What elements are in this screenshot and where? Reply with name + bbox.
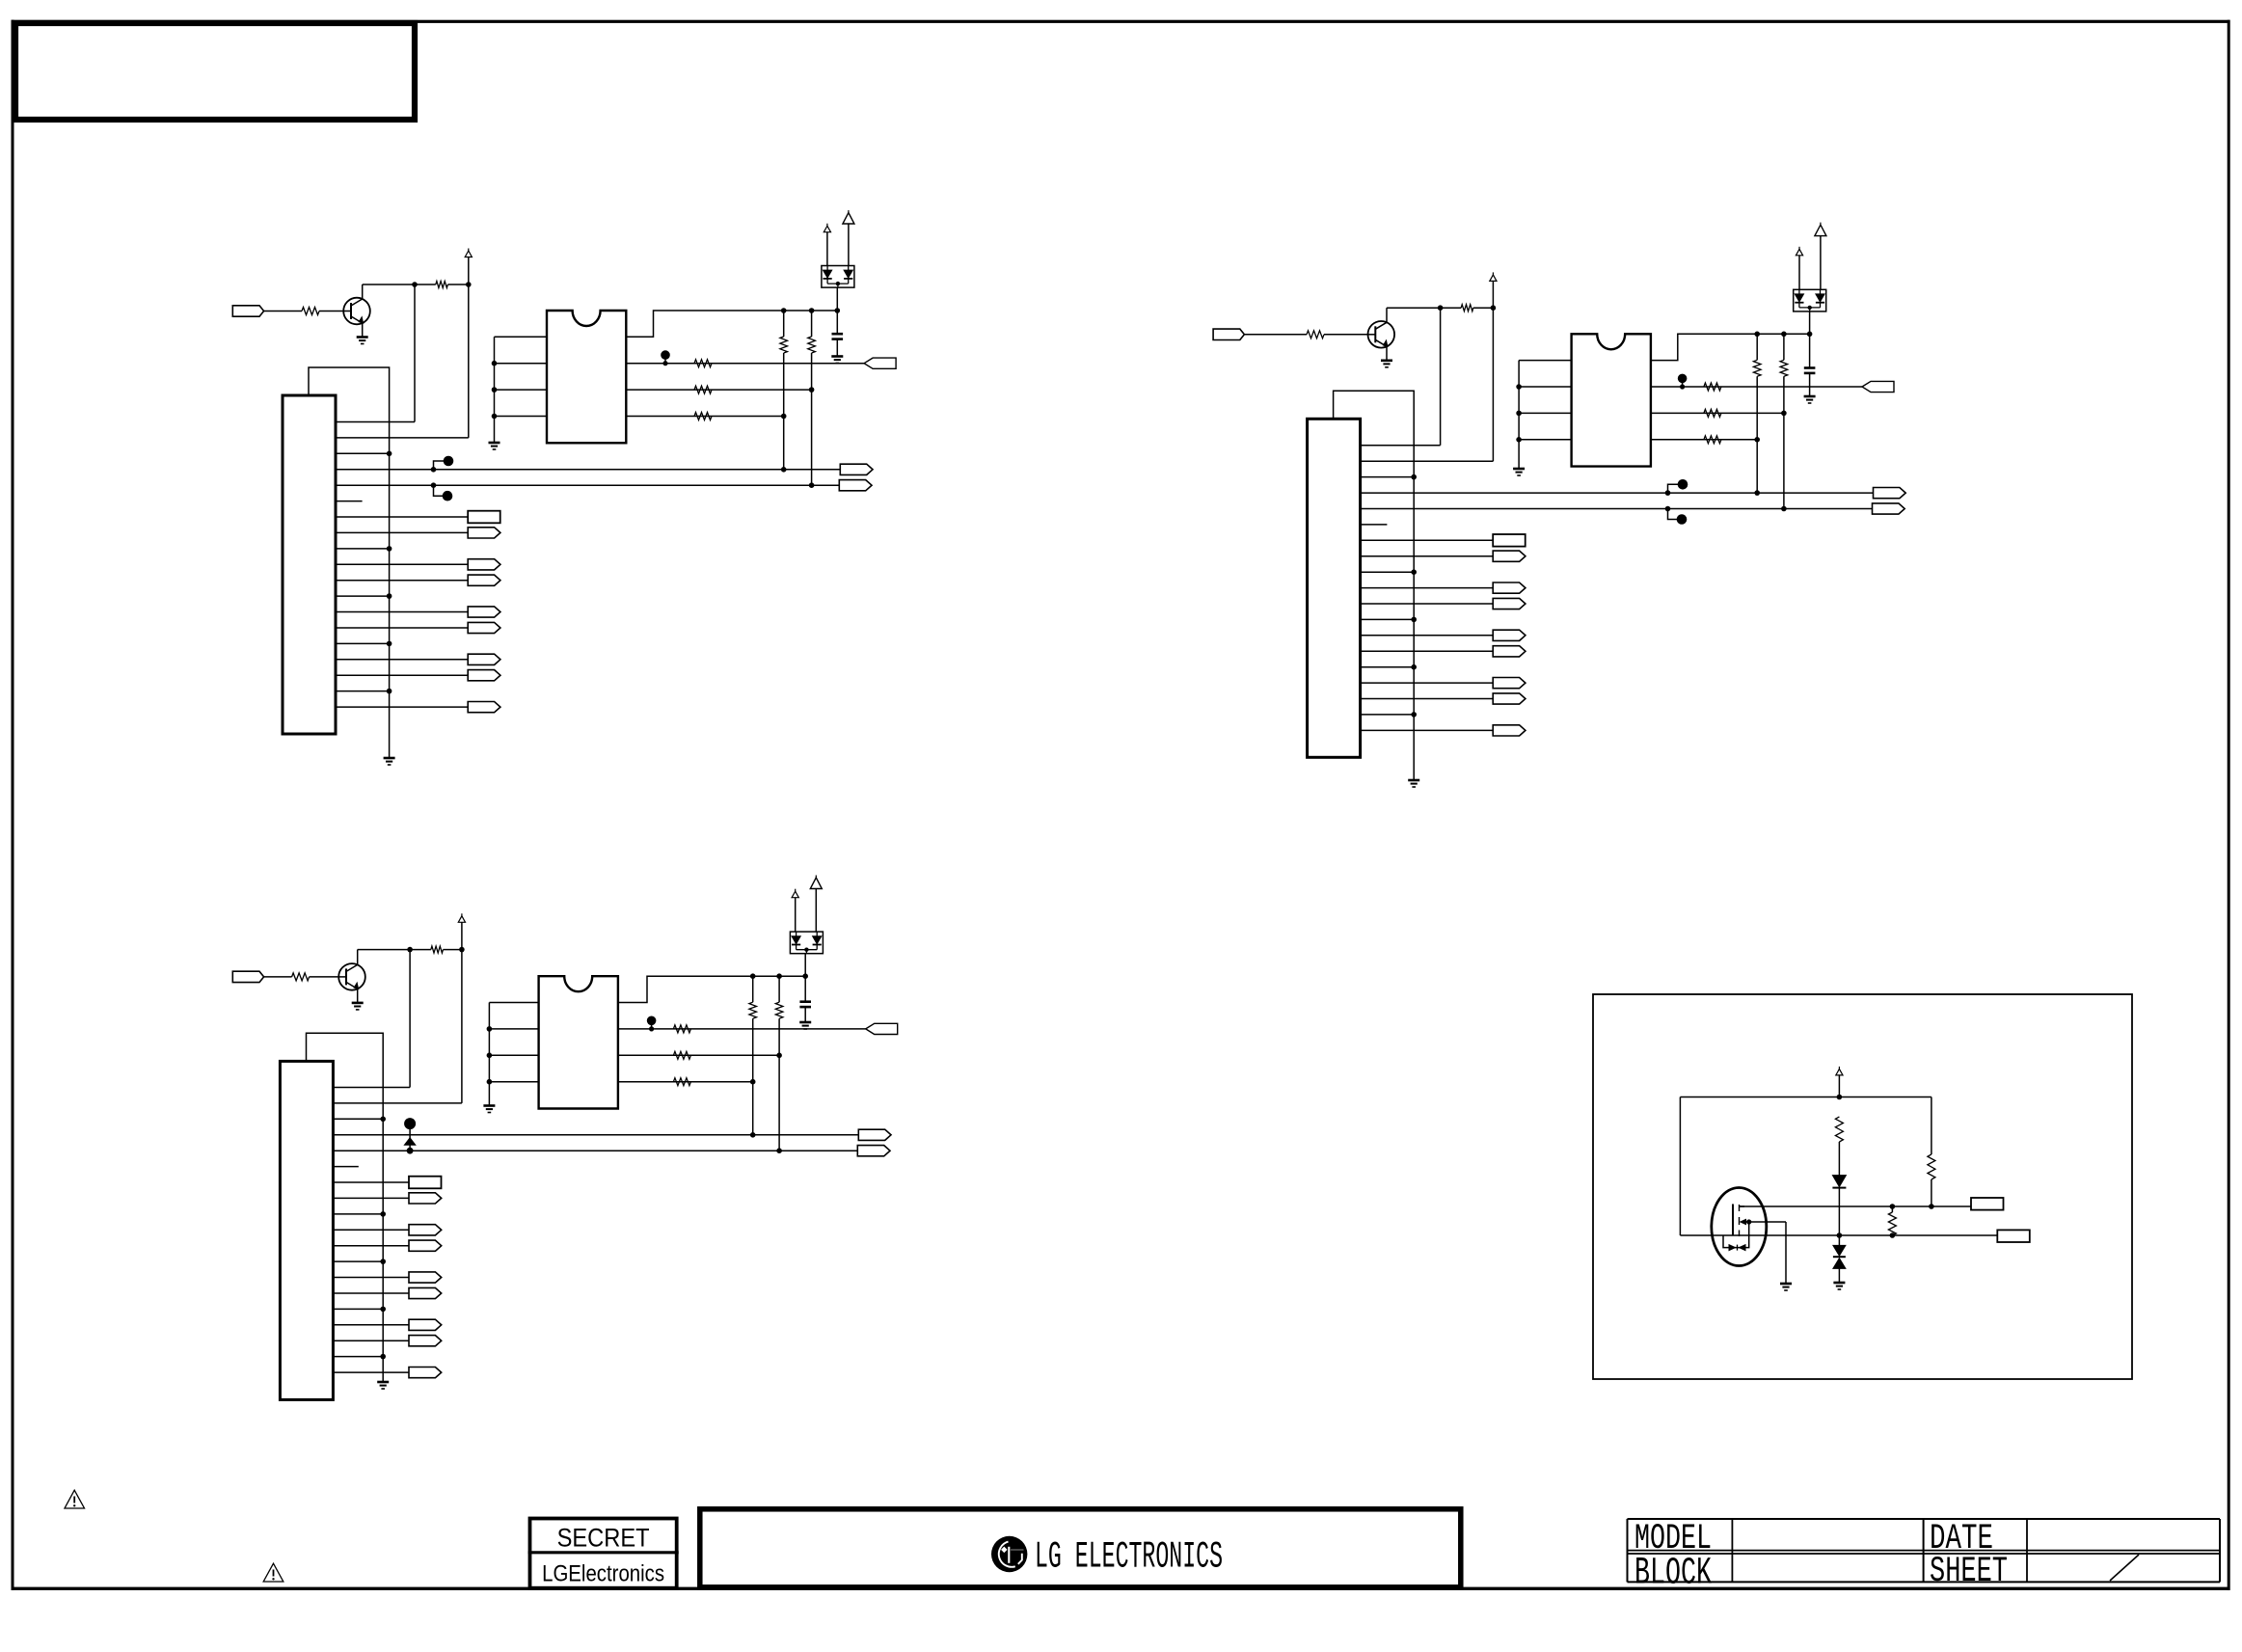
wire gate to ground (inset) <box>1785 1222 1787 1283</box>
wire to connector pin 2 <box>1361 460 1494 462</box>
wire U2 pin 7 net <box>1651 386 1862 388</box>
wire to connector pin 1 <box>1361 445 1441 447</box>
wire connector J2 pin 13 <box>1361 635 1494 636</box>
page border bottom <box>12 1587 2230 1590</box>
wire R41 to diode D41 <box>1838 1142 1840 1176</box>
input net tag block3 <box>232 971 263 982</box>
junction (VDD net / capacitor C3) <box>802 973 808 979</box>
junction (net B / R43) <box>1890 1232 1896 1238</box>
wire connector J2 pin 8 <box>1361 555 1494 557</box>
wire ground bus (block 1) <box>309 367 390 757</box>
wire collector node down to pin 1 <box>414 284 416 422</box>
wire net A drain (inset) <box>1740 1205 1931 1207</box>
wire D41 to net B (inset) <box>1838 1188 1840 1235</box>
junction (U1 left pin 2) <box>492 361 498 366</box>
wire connector J2 pin 7 <box>1361 539 1494 541</box>
transistor Q2 (NPN) <box>1367 321 1394 348</box>
net tag (pin 14, block 2) <box>1493 646 1526 657</box>
input net tag block2 <box>1213 329 1244 339</box>
resistor R13 (series) <box>694 360 712 367</box>
junction (pin 3 on bus) <box>1411 474 1417 480</box>
wire U2 pin 8 to VDD net <box>1651 334 1810 360</box>
junction (VCC node 2) <box>1491 305 1497 311</box>
wire to resistor R12 <box>415 284 436 285</box>
net tag (pin 7, block 1) <box>468 511 500 524</box>
wire connector J3 pin 15 to ground bus <box>333 1308 383 1310</box>
no-connect blob / diode marker (nets A-B block 3) <box>404 1118 416 1154</box>
power arrow (diode pack anode 1, block 3) <box>792 889 798 898</box>
junction (VDD net / vertical A block 2) <box>1754 332 1760 338</box>
wire U2 pin 3 (left) <box>1519 412 1572 414</box>
wire U1 pin 2 (left) <box>495 363 548 365</box>
wire vertical B lower (block 3) <box>778 1018 780 1151</box>
ground (U1 left bus) <box>489 443 500 449</box>
junction (top net / R41) <box>1837 1095 1843 1100</box>
junction (net B / vertical B block 3) <box>776 1148 782 1153</box>
junction (VDD net / capacitor C2) <box>1807 332 1813 338</box>
power arrow VCC (block 1) <box>465 249 472 257</box>
net tag A (block 3) <box>858 1129 891 1140</box>
warning triangle 2 <box>263 1563 284 1582</box>
wire net A (pin 4, block 2) <box>1361 492 1874 494</box>
wire vertical B lower (block 1) <box>811 353 813 485</box>
net tag B (inset) <box>1997 1230 2030 1242</box>
net tag (pin 8, block 3) <box>409 1193 442 1204</box>
diode pack D3 (dual diode) <box>790 932 823 954</box>
wire R43 upper stub <box>1891 1206 1893 1212</box>
wire resistor to VCC node <box>1473 307 1494 309</box>
net tag (U2 pin 7, points left) <box>1862 381 1894 392</box>
wire U2 pin 6 net <box>1651 412 1784 414</box>
wire connector J3 pin 3 to ground bus <box>333 1118 383 1120</box>
net tag (pin 16, block 3) <box>409 1319 442 1330</box>
wire net A (pin 4, block 1) <box>336 469 840 471</box>
wire diode pack to VDD net <box>804 954 806 977</box>
wire to connector pin 1 <box>333 1087 410 1089</box>
junction (pin 9 on bus) <box>387 546 392 552</box>
inset frame box <box>1593 994 2132 1379</box>
wire VCC arrow down <box>461 922 463 949</box>
net tag (pin 7, block 3) <box>409 1177 442 1189</box>
junction (VDD net / capacitor C1) <box>835 308 841 313</box>
wire connector J2 pin 18 to ground bus <box>1361 714 1415 716</box>
connector J3 <box>280 1061 333 1399</box>
connector J1 <box>283 395 336 734</box>
net tag (pin 11, block 2) <box>1493 598 1526 609</box>
net tag (pin 10, block 2) <box>1493 582 1526 593</box>
wire vertical B upper (block 1) <box>811 311 813 337</box>
net tag (pin 8, block 1) <box>468 528 500 538</box>
wire U3 pin 6 net <box>618 1054 779 1056</box>
wire ground bus (block 2) <box>1334 391 1415 779</box>
input net tag block1 <box>232 306 263 316</box>
IC U1 (8-pin) <box>547 311 626 443</box>
net tag (pin 14, block 1) <box>468 622 500 633</box>
junction (net B / vertical B block 1) <box>809 482 815 488</box>
resistor R24 (series) <box>1704 409 1721 417</box>
wire U1 pin 5 net <box>626 416 783 418</box>
wire Q3 emitter to ground <box>357 988 359 1002</box>
wire connector J1 pin 16 <box>336 659 468 661</box>
wire net A to tag <box>1931 1205 1971 1207</box>
junction (U3 left pin 3) <box>487 1053 493 1059</box>
ground (Q1 emitter) <box>357 338 368 344</box>
junction (pin 12 on bus) <box>1411 617 1417 623</box>
no-connect blob (net A block 2) <box>1665 479 1688 496</box>
wire connector J1 pin 17 <box>336 674 468 676</box>
junction (pin 12 on bus) <box>387 593 392 599</box>
junction (pin 3 on bus) <box>387 451 392 457</box>
wire connector J1 pin 7 <box>336 516 468 518</box>
junction (VCC node 3) <box>459 947 465 953</box>
resistor R32 (collector pull-up) <box>431 946 444 953</box>
wire U3 pin 2 (left) <box>489 1028 538 1030</box>
wire power to diode pack (1) <box>795 898 797 932</box>
junction (pin 9 on bus) <box>380 1211 386 1217</box>
wire U1 pin 4 (left) <box>495 416 548 418</box>
junction (VCC node 1) <box>466 282 472 287</box>
wire vertical B upper (block 2) <box>1783 334 1785 360</box>
wire vertical A lower (block 2) <box>1756 376 1758 493</box>
wire connector J2 pin 10 <box>1361 587 1494 589</box>
wire connector J3 pin 12 to ground bus <box>333 1260 383 1262</box>
page border top <box>12 20 2230 23</box>
power arrow (diode pack anode 2, block 3) <box>810 876 822 889</box>
wire U2 pin 4 (left) <box>1519 439 1572 441</box>
wire diode pack to VDD net <box>1809 311 1811 334</box>
wire connector J3 pin 17 <box>333 1340 409 1341</box>
wire Q3 collector up <box>357 950 359 965</box>
wire net A (pin 4, block 3) <box>333 1134 858 1136</box>
wire connector J3 pin 13 <box>333 1277 409 1279</box>
resistor R11 (base series) <box>302 308 319 315</box>
wire connector J3 pin 18 to ground bus <box>333 1356 383 1358</box>
wire U3 pin 7 net <box>618 1028 866 1030</box>
diode D41 (series, cathode down) <box>1832 1176 1846 1188</box>
power arrow (diode pack anode 2, block 2) <box>1815 223 1826 236</box>
wire resistor to VCC node <box>447 284 468 285</box>
wire U2 left ground bus <box>1518 361 1520 468</box>
junction (pin 15 on bus) <box>1411 664 1417 670</box>
junction (pin 15 on bus) <box>380 1307 386 1313</box>
ground (bus block 2) <box>1408 780 1419 787</box>
junction (U2 left pin 4) <box>1516 437 1522 443</box>
LG ELECTRONICS box <box>700 1509 1461 1587</box>
sheet slash <box>2110 1555 2139 1581</box>
wire connector J1 pin 13 <box>336 611 468 613</box>
wire net B source (inset) <box>1680 1234 1997 1236</box>
ground (U2 left bus) <box>1513 469 1525 475</box>
wire connector J3 pin 6 stub <box>333 1166 358 1168</box>
junction (net B / zener) <box>1837 1232 1843 1238</box>
wire U3 pin 4 (left) <box>489 1081 538 1083</box>
wire connector J1 pin 10 <box>336 563 468 565</box>
wire U1 pin 8 to VDD net <box>626 311 837 337</box>
net tag (pin 19, block 3) <box>409 1368 442 1378</box>
net tag (pin 13, block 2) <box>1493 630 1526 640</box>
capacitor C1 <box>832 334 844 339</box>
net tag B (block 1) <box>839 480 872 491</box>
wire diode pack to VDD net <box>836 287 838 311</box>
junction (pin 6 net / vertical B) <box>776 1053 782 1059</box>
junction (pin 3 on bus) <box>380 1117 386 1123</box>
junction (VDD net / vertical B block 1) <box>809 308 815 313</box>
warning triangle 1 <box>65 1490 85 1508</box>
net tag (pin 16, block 2) <box>1493 678 1526 689</box>
wire VCC arrow down (inset) <box>1838 1075 1840 1097</box>
wire connector J2 pin 11 <box>1361 603 1494 605</box>
wire U3 pin 5 net <box>618 1081 753 1083</box>
svg-text:LGElectronics: LGElectronics <box>542 1561 664 1587</box>
net tag (pin 13, block 1) <box>468 607 500 617</box>
transistor Q3 (NPN) <box>338 963 365 990</box>
svg-text:SHEET: SHEET <box>1930 1552 2008 1592</box>
junction (collector node 3) <box>407 947 413 953</box>
page border right <box>2228 20 2230 1590</box>
diode pack D2 (dual diode) <box>1794 289 1826 311</box>
wire connector J1 pin 12 to ground bus <box>336 595 390 597</box>
junction (pin 15 on bus) <box>387 641 392 647</box>
ground (Q3 emitter) <box>352 1003 364 1010</box>
wire VCC arrow down <box>468 257 470 285</box>
resistor R12 (collector pull-up) <box>436 282 448 288</box>
wire U1 left ground bus <box>494 337 496 442</box>
wire VCC node down to pin 2 <box>1492 308 1494 461</box>
wire input tag to resistor R31 <box>264 976 292 978</box>
wire net B (pin 5, block 3) <box>333 1150 857 1151</box>
no-connect blob (U3 pin 7 net) <box>647 1016 657 1032</box>
no-connect blob (net B block 2) <box>1665 506 1688 525</box>
junction (net A / R43) <box>1890 1204 1896 1209</box>
junction (VDD net / vertical B block 2) <box>1781 332 1787 338</box>
resistor R16 (pull-up A) <box>780 337 788 353</box>
junction (U1 left pin 3) <box>492 387 498 393</box>
junction (VDD net / vertical A block 1) <box>781 308 787 313</box>
net tag B (block 2) <box>1873 503 1905 514</box>
svg-text:BLOCK: BLOCK <box>1634 1553 1712 1596</box>
junction (pin 6 net / vertical B) <box>809 387 815 393</box>
net tag (pin 17, block 1) <box>468 670 500 681</box>
wire power to diode pack (1) <box>826 232 828 266</box>
junction (collector node 1) <box>412 282 418 287</box>
junction (net A / vertical A block 3) <box>750 1132 756 1138</box>
net tag (pin 17, block 3) <box>409 1336 442 1346</box>
power arrow VCC (inset) <box>1836 1067 1843 1075</box>
wire connector J2 pin 14 <box>1361 650 1494 652</box>
resistor R33 (series) <box>673 1025 690 1033</box>
wire to connector pin 2 <box>336 437 469 439</box>
resistor R31 (base series) <box>292 973 310 981</box>
net tag (pin 10, block 3) <box>409 1225 442 1235</box>
net tag (pin 11, block 3) <box>409 1240 442 1251</box>
wire vertical A upper (block 2) <box>1756 334 1758 360</box>
wire connector J1 pin 3 to ground bus <box>336 452 390 454</box>
IC U3 (8-pin) <box>539 976 618 1108</box>
junction (VDD net / vertical A block 3) <box>750 973 756 979</box>
wire collector net <box>363 284 415 285</box>
SECRET box <box>528 1519 679 1588</box>
wire VDD net to capacitor C1 <box>836 311 838 334</box>
power arrow (diode pack anode 2, block 1) <box>843 210 854 224</box>
resistor R27 (pull-up B) <box>1780 360 1788 376</box>
power arrow (diode pack anode 1, block 1) <box>824 224 830 232</box>
wire connector J3 pin 8 <box>333 1197 409 1199</box>
power arrow (diode pack anode 1, block 2) <box>1796 247 1802 256</box>
wire connector J2 pin 15 to ground bus <box>1361 666 1415 668</box>
wire vertical B lower (block 2) <box>1783 376 1785 508</box>
net tag (pin 10, block 1) <box>468 559 500 570</box>
wire connector J2 pin 17 <box>1361 698 1494 700</box>
net tag B (block 3) <box>857 1146 890 1156</box>
junction (pin 5 net / vertical A) <box>1754 437 1760 443</box>
resistor R22 (collector pull-up) <box>1461 305 1473 311</box>
junction (collector node 2) <box>1438 305 1444 311</box>
wire connector J1 pin 9 to ground bus <box>336 548 390 550</box>
wire VCC node down to pin 2 <box>468 284 470 438</box>
junction (U2 left pin 3) <box>1516 411 1522 417</box>
wire connector J2 pin 3 to ground bus <box>1361 476 1415 478</box>
wire connector J2 pin 9 to ground bus <box>1361 571 1415 573</box>
wire U3 pin 3 (left) <box>489 1054 538 1056</box>
wire connector J1 pin 6 stub <box>336 501 363 502</box>
title box (top-left, empty) <box>15 23 415 120</box>
resistor R26 (pull-up A) <box>1753 360 1761 376</box>
resistor R37 (pull-up B) <box>775 1002 783 1018</box>
wire power to diode pack (2) <box>815 889 817 933</box>
wire connector J1 pin 14 <box>336 627 468 629</box>
wire connector J3 pin 10 <box>333 1229 409 1231</box>
wire capacitor C2 to ground <box>1809 373 1811 395</box>
resistor R23 (series) <box>1704 383 1721 391</box>
svg-text:LG ELECTRONICS: LG ELECTRONICS <box>1035 1536 1223 1579</box>
ground (bus block 3) <box>377 1382 389 1389</box>
wire U3 pin 1 (left) <box>489 1002 538 1004</box>
LG logo <box>991 1536 1027 1572</box>
junction (net B / vertical B block 2) <box>1781 506 1787 512</box>
net tag (U1 pin 7, points left) <box>864 358 896 368</box>
junction (U1 left pin 4) <box>492 414 498 420</box>
ground (gate, inset) <box>1780 1284 1792 1290</box>
wire VCC node down to pin 2 <box>461 950 463 1103</box>
resistor R42 (right pull-up) <box>1928 1154 1935 1179</box>
resistor R34 (series) <box>673 1051 690 1059</box>
wire power to diode pack (2) <box>848 224 850 266</box>
wire Q2 collector up <box>1386 308 1388 322</box>
wire vertical A upper (block 1) <box>783 311 785 337</box>
wire to resistor R32 <box>410 949 431 951</box>
wire U2 pin 1 (left) <box>1519 360 1572 362</box>
junction (VDD net / vertical B block 3) <box>776 973 782 979</box>
power arrow VCC (block 3) <box>458 913 465 922</box>
wire input tag to resistor R21 <box>1244 334 1307 336</box>
wire to connector pin 2 <box>333 1102 462 1104</box>
wire to connector pin 1 <box>336 421 415 423</box>
wire right vertical lower (inset) <box>1931 1179 1932 1205</box>
net tag (pin 13, block 3) <box>409 1272 442 1283</box>
wire connector J3 pin 16 <box>333 1324 409 1326</box>
junction (U3 left pin 4) <box>487 1079 493 1085</box>
transistor Q1 (NPN) <box>343 298 370 325</box>
net tag (pin 19, block 2) <box>1493 725 1526 736</box>
junction (U3 left pin 2) <box>487 1026 493 1032</box>
resistor R43 (divider) <box>1888 1212 1896 1235</box>
wire resistor to Q1 base <box>319 311 343 312</box>
capacitor C3 <box>799 1002 811 1007</box>
resistor R15 (series) <box>694 413 712 420</box>
resistor R17 (pull-up B) <box>808 337 816 353</box>
wire U3 left ground bus <box>488 1003 490 1105</box>
resistor R36 (pull-up A) <box>749 1002 757 1018</box>
net tag (pin 19, block 1) <box>468 702 500 713</box>
ground (Q2 emitter) <box>1381 361 1392 367</box>
wire VCC arrow down <box>1492 281 1494 308</box>
junction (pin 18 on bus) <box>387 689 392 694</box>
wire connector J1 pin 19 <box>336 706 468 708</box>
ground (capacitor C2) <box>1804 396 1816 403</box>
junction (pin 5 net / vertical A) <box>781 414 787 420</box>
junction (net A / vertical A block 1) <box>781 467 787 473</box>
junction (U2 left pin 2) <box>1516 384 1522 390</box>
no-connect blob (net B block 1) <box>431 482 453 501</box>
wire collector node down to pin 1 <box>409 950 411 1088</box>
junction (net A / right vertical) <box>1929 1204 1934 1209</box>
wire vertical B upper (block 3) <box>778 976 780 1002</box>
wire net B (pin 5, block 1) <box>336 484 839 486</box>
ground (zener, inset) <box>1833 1283 1845 1289</box>
wire resistor to Q2 base <box>1324 334 1367 336</box>
wire connector J3 pin 11 <box>333 1245 409 1247</box>
wire left vertical (inset) <box>1679 1097 1681 1236</box>
wire U1 pin 6 net <box>626 389 811 391</box>
wire U1 pin 7 net <box>626 363 864 365</box>
net tag (pin 8, block 2) <box>1493 551 1526 561</box>
net tag A (block 1) <box>840 464 873 474</box>
wire collector net <box>358 949 410 951</box>
wire U1 pin 3 (left) <box>495 389 548 391</box>
wire right vertical upper (inset) <box>1931 1097 1932 1155</box>
wire U2 pin 2 (left) <box>1519 386 1572 388</box>
wire connector J2 pin 16 <box>1361 682 1494 684</box>
ground (capacitor C1) <box>831 357 843 364</box>
net tag (pin 14, block 3) <box>409 1287 442 1298</box>
junction (pin 5 net / vertical A) <box>750 1079 756 1085</box>
no-connect blob (net A block 1) <box>431 456 454 473</box>
wire connector J3 pin 14 <box>333 1292 409 1294</box>
wire connector J2 pin 6 stub <box>1361 524 1388 526</box>
resistor R41 (center) <box>1835 1117 1843 1142</box>
zener pair D42 (back-to-back) <box>1833 1235 1846 1282</box>
wire connector J1 pin 18 to ground bus <box>336 691 390 692</box>
wire capacitor C1 to ground <box>836 339 838 356</box>
wire Q1 emitter to ground <box>362 323 364 337</box>
wire collector net <box>1387 307 1441 309</box>
wire collector node down to pin 1 <box>1440 308 1442 446</box>
ground (bus block 1) <box>384 758 395 765</box>
MOSFET Q4 (N-channel with body diode) <box>1712 1188 1786 1266</box>
junction (pin 12 on bus) <box>380 1259 386 1264</box>
net tag (U3 pin 7, points left) <box>866 1023 898 1034</box>
no-connect blob (U1 pin 7 net) <box>661 350 670 366</box>
wire VDD net to capacitor C3 <box>804 976 806 1001</box>
wire top net (inset) <box>1680 1097 1931 1098</box>
wire connector J1 pin 11 <box>336 580 468 582</box>
ground (U3 left bus) <box>483 1106 495 1113</box>
wire connector J3 pin 9 to ground bus <box>333 1213 383 1215</box>
wire connector J1 pin 8 <box>336 531 468 533</box>
resistor R35 (series) <box>673 1078 690 1086</box>
ground (capacitor C3) <box>799 1022 811 1029</box>
wire power to diode pack (2) <box>1820 236 1822 290</box>
